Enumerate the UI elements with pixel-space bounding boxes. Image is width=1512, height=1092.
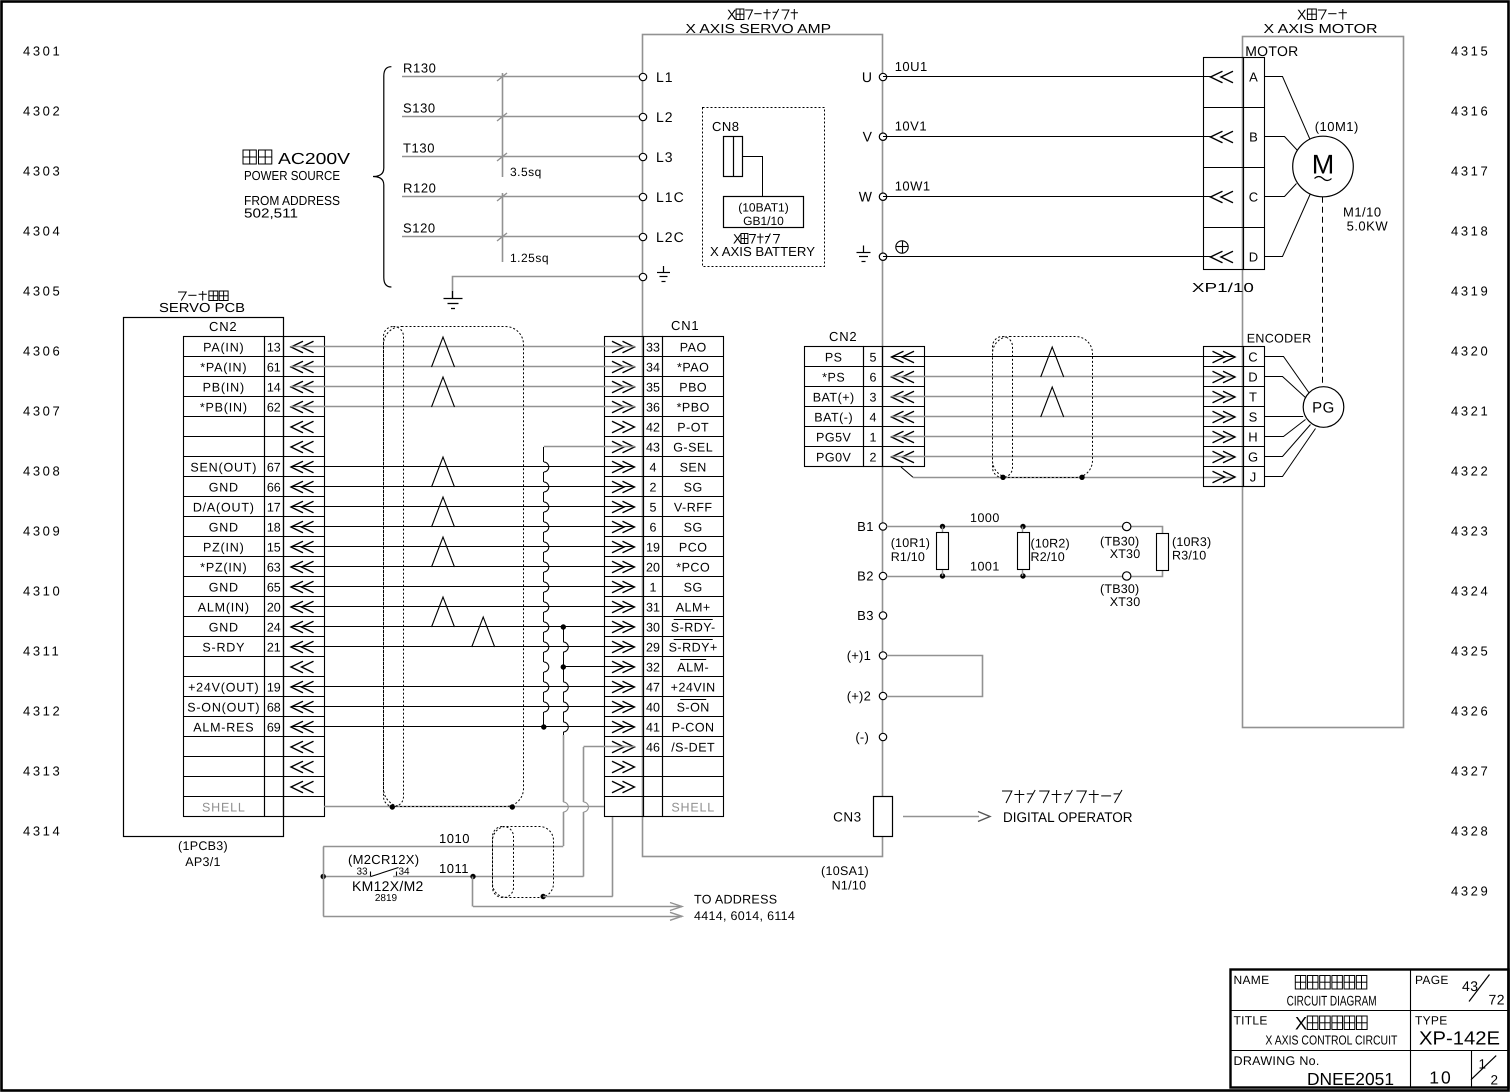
svg-text:PB(IN): PB(IN) [203, 380, 245, 394]
wire motor pin A to motor [1265, 77, 1311, 141]
wire 1001 B2 net [887, 571, 1163, 577]
svg-text:ALM+: ALM+ [676, 600, 711, 614]
wire down-mid to address [472, 877, 474, 907]
terminal (-) [879, 733, 886, 740]
svg-text:4328: 4328 [1451, 824, 1490, 839]
svg-text:DIGITAL OPERATOR: DIGITAL OPERATOR [1003, 809, 1133, 825]
svg-text:15: 15 [267, 540, 281, 554]
svg-text:41: 41 [646, 720, 660, 734]
label X-jiku motor (Japanese) [1297, 8, 1347, 24]
svg-text:21: 21 [267, 640, 281, 654]
svg-text:42: 42 [646, 420, 660, 434]
svg-text:*PBO: *PBO [677, 400, 710, 414]
junction dot 1011 left [321, 874, 326, 879]
terminal L2C [639, 233, 646, 240]
junction dot 1011 mid [470, 874, 475, 879]
shield junction dots left cable [390, 804, 395, 809]
svg-text:33: 33 [646, 340, 660, 354]
svg-text:10: 10 [1429, 1068, 1452, 1088]
svg-text:BAT(+): BAT(+) [813, 390, 855, 404]
wire 1010 [323, 846, 563, 848]
svg-text:4317: 4317 [1451, 164, 1490, 179]
svg-text:(1PCB3): (1PCB3) [178, 839, 228, 853]
wire motor pin B to motor [1265, 137, 1298, 151]
shield junction dot small cable [541, 894, 546, 899]
svg-text:W: W [859, 189, 873, 205]
svg-text:D: D [1249, 250, 1258, 265]
wire earth to motor [883, 256, 1211, 258]
svg-text:67: 67 [267, 460, 281, 474]
svg-text:L2C: L2C [656, 229, 685, 245]
svg-text:34: 34 [398, 867, 410, 878]
svg-text:(10SA1): (10SA1) [821, 864, 869, 878]
svg-text:4310: 4310 [23, 584, 62, 599]
servo PCB outline box [124, 318, 284, 837]
twisted pair marks encoder cable [1041, 347, 1064, 377]
left margin line numbers 4301-4314 [23, 44, 62, 839]
svg-text:4309: 4309 [23, 524, 62, 539]
servo amp CN1 send arrows [612, 341, 635, 353]
svg-text:S-RDY-: S-RDY- [671, 620, 716, 634]
svg-text:SG: SG [684, 580, 703, 594]
svg-text:P-OT: P-OT [677, 420, 709, 434]
svg-text:PG: PG [1312, 400, 1335, 417]
wire ALM- stub [563, 666, 634, 668]
svg-text:66: 66 [267, 480, 281, 494]
svg-text:SERVO PCB: SERVO PCB [159, 300, 245, 315]
wire encoder pin D to PG [1265, 377, 1307, 399]
S-RDY-/ALM- tie drop wire [563, 627, 565, 642]
svg-text:PA(IN): PA(IN) [203, 340, 244, 354]
svg-text:20: 20 [267, 600, 281, 614]
dashed shaft link motor to encoder [1322, 197, 1324, 387]
svg-text:13: 13 [267, 340, 281, 354]
svg-text:TYPE: TYPE [1415, 1014, 1448, 1028]
svg-text:72: 72 [1489, 991, 1506, 1007]
svg-text:DNEE2051: DNEE2051 [1307, 1069, 1394, 1089]
svg-text:GND: GND [209, 580, 239, 594]
svg-text:4306: 4306 [23, 344, 62, 359]
resistor R2/10 [1020, 524, 1025, 529]
svg-text:KM12X/M2: KM12X/M2 [352, 878, 424, 894]
svg-text:SEN: SEN [680, 460, 707, 474]
svg-text:L1: L1 [656, 69, 674, 85]
svg-text:1010: 1010 [439, 831, 470, 846]
wire earth input [453, 277, 643, 299]
svg-text:CN8: CN8 [712, 119, 740, 134]
svg-text:R1/10: R1/10 [891, 550, 925, 564]
svg-text:(10R1): (10R1) [891, 536, 930, 550]
svg-text:2: 2 [870, 450, 877, 464]
svg-text:20: 20 [646, 560, 660, 574]
svg-text:4: 4 [870, 410, 877, 424]
terminal L1C [639, 193, 646, 200]
svg-text:5: 5 [650, 500, 657, 514]
wire encoder pin J to PG [1265, 429, 1316, 477]
svg-text:S-ON(OUT): S-ON(OUT) [187, 700, 260, 714]
svg-text:CN3: CN3 [833, 809, 862, 824]
svg-text:V-RFF: V-RFF [674, 500, 713, 514]
terminal B3 [879, 612, 886, 619]
svg-text:35: 35 [646, 380, 660, 394]
svg-text:S-RDY: S-RDY [202, 640, 245, 654]
motor unit outline box [1243, 37, 1404, 728]
motor M1 circle symbol [1293, 136, 1354, 197]
svg-text:XT30: XT30 [1110, 547, 1141, 561]
servo PCB CN2 receive arrows [291, 341, 314, 353]
svg-text:5: 5 [870, 350, 877, 364]
svg-text:4321: 4321 [1451, 404, 1490, 419]
svg-text:X AXIS MOTOR: X AXIS MOTOR [1264, 21, 1378, 36]
svg-text:4319: 4319 [1451, 284, 1490, 299]
svg-text:PG5V: PG5V [816, 430, 852, 444]
svg-text:4311: 4311 [23, 644, 61, 659]
svg-text:*PB(IN): *PB(IN) [200, 400, 248, 414]
label X-jiku servo amp (Japanese) [727, 8, 798, 24]
wire T130 [402, 156, 643, 158]
CN1 shell drop wire to small cable shield [612, 817, 614, 897]
svg-text:4: 4 [650, 460, 657, 474]
svg-text:X AXIS CONTROL CIRCUIT: X AXIS CONTROL CIRCUIT [1265, 1033, 1397, 1048]
wire S130 [402, 116, 643, 118]
svg-text:R120: R120 [403, 181, 436, 196]
svg-text:65: 65 [267, 580, 281, 594]
svg-text:31: 31 [646, 600, 660, 614]
svg-text:62: 62 [267, 400, 281, 414]
svg-text:63: 63 [267, 560, 281, 574]
svg-text:R3/10: R3/10 [1172, 549, 1206, 563]
svg-text:R2/10: R2/10 [1031, 550, 1065, 564]
svg-text:(-): (-) [855, 730, 869, 745]
svg-text:G: G [1248, 450, 1258, 465]
svg-text:18: 18 [267, 520, 281, 534]
svg-text:(10R3): (10R3) [1172, 535, 1211, 549]
svg-text:NAME: NAME [1234, 973, 1270, 987]
svg-text:PCO: PCO [679, 540, 708, 554]
resistor R3/10 [1157, 534, 1169, 571]
svg-text:10V1: 10V1 [895, 119, 927, 134]
cable shield dashed loop small (1010/1011) [493, 827, 554, 898]
encoder cable dashed shield loop [993, 337, 1093, 478]
CN3 connector box [874, 797, 893, 837]
svg-text:TO ADDRESS: TO ADDRESS [694, 893, 777, 907]
svg-text:10U1: 10U1 [895, 59, 928, 74]
svg-text:*PS: *PS [822, 370, 845, 384]
svg-text:SHELL: SHELL [671, 800, 715, 814]
svg-text:(10M1): (10M1) [1315, 119, 1359, 134]
svg-text:R130: R130 [403, 61, 436, 76]
label servo PCB (Japanese) [178, 291, 228, 301]
svg-text:68: 68 [267, 700, 281, 714]
wire encoder pin C to PG [1265, 357, 1310, 394]
svg-text:S130: S130 [403, 101, 436, 116]
svg-text:6: 6 [650, 520, 657, 534]
svg-text:PZ(IN): PZ(IN) [203, 540, 245, 554]
svg-text:CN2: CN2 [829, 329, 857, 344]
terminal (+)1 [879, 652, 886, 659]
svg-text:4301: 4301 [23, 44, 62, 59]
svg-text:G-SEL: G-SEL [673, 440, 713, 454]
svg-text:X: X [1295, 1014, 1307, 1034]
svg-text:(+)1: (+)1 [847, 648, 871, 663]
battery GB1/10 box [724, 197, 804, 228]
svg-text:2: 2 [650, 480, 657, 494]
/S-DET drop wire [583, 747, 585, 802]
encoder shield stub and wire [901, 467, 913, 477]
title block [1231, 970, 1509, 1088]
wire S120 [402, 236, 643, 238]
svg-text:ALM-: ALM- [677, 660, 709, 674]
svg-text:1000: 1000 [970, 511, 1000, 525]
label power source (kanji) AC200V [243, 150, 272, 164]
svg-text:10W1: 10W1 [895, 179, 931, 194]
CN8 dashed enclosure [703, 108, 825, 267]
svg-text:C: C [1248, 350, 1257, 365]
terminal earth with ground symbol [639, 273, 646, 280]
svg-text:4313: 4313 [23, 764, 62, 779]
svg-text:ENCODER: ENCODER [1247, 332, 1312, 346]
svg-text:L3: L3 [656, 149, 674, 165]
svg-text:4329: 4329 [1451, 884, 1490, 899]
svg-text:H: H [1248, 430, 1257, 445]
svg-text:D: D [1248, 370, 1257, 385]
svg-text:4308: 4308 [23, 464, 62, 479]
svg-text:4323: 4323 [1451, 524, 1490, 539]
signal wires SEN..ALM-RES group [291, 466, 635, 468]
svg-text:2: 2 [1491, 1073, 1499, 1088]
terminal B2 [879, 572, 886, 579]
protective earth circled cross symbol [896, 241, 908, 253]
label X axis battery (Japanese) [733, 232, 779, 247]
arrow CN3 to digital operator [903, 816, 979, 818]
svg-text:4304: 4304 [23, 224, 62, 239]
svg-text:C: C [1249, 190, 1258, 205]
svg-text:4307: 4307 [23, 404, 62, 419]
svg-text:36: 36 [646, 400, 660, 414]
wire 10U1 [883, 76, 1211, 78]
terminal XT30 TB30 upper [1123, 522, 1131, 530]
right margin line numbers 4315-4329 [1451, 44, 1490, 899]
servo amp CN2 encoder table [805, 347, 864, 467]
terminal L3 [639, 153, 646, 160]
svg-text:GB1/10: GB1/10 [743, 214, 784, 228]
svg-text:24: 24 [267, 620, 281, 634]
svg-text:/S-DET: /S-DET [671, 740, 715, 754]
svg-text:CIRCUIT DIAGRAM: CIRCUIT DIAGRAM [1287, 993, 1377, 1009]
wire /S-DET [584, 746, 635, 748]
svg-text:17: 17 [267, 500, 281, 514]
svg-text:+24VIN: +24VIN [671, 680, 716, 694]
svg-text:T: T [1249, 390, 1257, 405]
svg-text:43: 43 [646, 440, 660, 454]
svg-text:*PAO: *PAO [677, 360, 709, 374]
svg-text:34: 34 [646, 360, 660, 374]
svg-text:1.25sq: 1.25sq [510, 251, 549, 265]
servo amp CN2 receive arrows [892, 351, 915, 363]
svg-text:L1C: L1C [656, 189, 685, 205]
svg-text:XP1/10: XP1/10 [1192, 280, 1254, 295]
svg-text:POWER SOURCE: POWER SOURCE [244, 168, 340, 183]
svg-text:S-ON: S-ON [677, 700, 710, 714]
svg-text:29: 29 [646, 640, 660, 654]
svg-text:ALM(IN): ALM(IN) [198, 600, 250, 614]
wire contact to 1011 left segment [323, 876, 371, 878]
drop wire to 1010 net [563, 735, 565, 802]
svg-text:+24V(OUT): +24V(OUT) [188, 680, 259, 694]
encoder cable wires greyed [892, 376, 1236, 378]
terminal U [879, 73, 886, 80]
svg-text:TITLE: TITLE [1234, 1014, 1268, 1028]
svg-text:1001: 1001 [970, 560, 1000, 574]
svg-text:AP3/1: AP3/1 [185, 855, 221, 869]
wire (+)1 to (+)2 link [887, 656, 983, 697]
svg-text:4316: 4316 [1451, 104, 1490, 119]
svg-text:L2: L2 [656, 109, 674, 125]
svg-text:U: U [862, 69, 872, 85]
wire size tap 1.25sq [502, 193, 504, 262]
svg-text:PAGE: PAGE [1415, 973, 1449, 987]
svg-text:4302: 4302 [23, 104, 62, 119]
servo PCB CN2 connector table [184, 337, 265, 817]
wire size tap 3.5sq [502, 73, 504, 177]
svg-text:DRAWING No.: DRAWING No. [1234, 1054, 1320, 1068]
svg-text:4324: 4324 [1451, 584, 1490, 599]
svg-text:4322: 4322 [1451, 464, 1490, 479]
wire motor pin C to motor [1265, 184, 1297, 197]
auxiliary contact KM12X/M2 33-34 [370, 872, 372, 877]
svg-text:69: 69 [267, 720, 281, 734]
svg-text:4314: 4314 [23, 824, 62, 839]
svg-text:*PZ(IN): *PZ(IN) [200, 560, 247, 574]
svg-text:SG: SG [684, 520, 703, 534]
svg-text:S: S [1249, 410, 1258, 425]
svg-text:A: A [1249, 70, 1258, 85]
svg-text:1: 1 [870, 430, 877, 444]
svg-text:1: 1 [650, 580, 657, 594]
svg-text:SHELL: SHELL [202, 800, 246, 814]
svg-text:4327: 4327 [1451, 764, 1490, 779]
svg-text:B2: B2 [857, 569, 874, 584]
ground symbol input [452, 291, 454, 298]
resistor R1/10 [940, 524, 945, 529]
svg-text:4305: 4305 [23, 284, 62, 299]
svg-text:4325: 4325 [1451, 644, 1490, 659]
svg-text:1011: 1011 [439, 861, 469, 876]
wire encoder pin S to PG [1264, 416, 1303, 418]
svg-text:B3: B3 [857, 608, 874, 623]
wire down-left to address [323, 847, 325, 917]
G-SEL drop wire with crossovers [543, 447, 545, 462]
encoder PG circle symbol [1303, 387, 1344, 428]
svg-text:19: 19 [267, 680, 281, 694]
svg-text:40: 40 [646, 700, 660, 714]
svg-text:(10R2): (10R2) [1031, 537, 1070, 551]
svg-text:SEN(OUT): SEN(OUT) [190, 460, 257, 474]
svg-text:2819: 2819 [375, 893, 398, 904]
svg-text:BAT(-): BAT(-) [814, 410, 853, 424]
svg-text:502,511: 502,511 [244, 206, 298, 221]
svg-text:4320: 4320 [1451, 344, 1490, 359]
svg-text:B1: B1 [857, 519, 874, 534]
svg-text:4312: 4312 [23, 704, 62, 719]
twisted pair marks left cable [432, 337, 455, 367]
wire G-SEL [544, 446, 635, 448]
wire shell shield left [324, 806, 604, 808]
terminal B1 [879, 523, 886, 530]
encoder connector table [1204, 347, 1244, 487]
terminal W [879, 193, 886, 200]
svg-text:S120: S120 [403, 221, 436, 236]
svg-text:47: 47 [646, 680, 660, 694]
svg-text:J: J [1250, 470, 1257, 485]
motor connector XP1/10 table [1204, 58, 1244, 270]
svg-text:MOTOR: MOTOR [1245, 43, 1298, 59]
wire 1000 B1 net [887, 527, 1163, 534]
svg-text:*PA(IN): *PA(IN) [200, 360, 247, 374]
terminal earth output with ground symbol [879, 253, 886, 260]
signal wires PA/PB group (grey) [291, 346, 635, 348]
svg-text:3: 3 [870, 390, 877, 404]
svg-text:33: 33 [356, 867, 368, 878]
svg-text:46: 46 [646, 740, 660, 754]
wire 10V1 [883, 136, 1211, 138]
wire R120 [402, 196, 643, 198]
svg-text:32: 32 [646, 660, 660, 674]
label digital operator (Japanese) [1002, 790, 1122, 803]
svg-text:V: V [863, 129, 873, 145]
svg-text:30: 30 [646, 620, 660, 634]
terminal L1 [639, 73, 646, 80]
svg-text:4414, 6014, 6114: 4414, 6014, 6114 [694, 909, 795, 923]
encoder shield junction dots [1000, 475, 1005, 480]
svg-text:B: B [1249, 130, 1258, 145]
terminal (+)2 [879, 692, 886, 699]
power source brace [373, 67, 391, 287]
svg-text:19: 19 [646, 540, 660, 554]
servo amp CN1 connector table [605, 337, 644, 817]
wire 1011 [473, 876, 584, 878]
svg-text:PG0V: PG0V [816, 450, 852, 464]
wire motor pin D to motor [1265, 194, 1311, 257]
terminal L2 [639, 113, 646, 120]
svg-text:N1/10: N1/10 [832, 879, 867, 893]
svg-text:4303: 4303 [23, 164, 62, 179]
servo amp U1 outline box [643, 35, 883, 857]
cable shield dashed loop left [384, 327, 524, 807]
svg-text:(M2CR12X): (M2CR12X) [348, 852, 419, 867]
svg-text:P-CON: P-CON [672, 720, 715, 734]
svg-text:PS: PS [825, 350, 843, 364]
svg-text:M: M [1312, 150, 1335, 180]
svg-text:3.5sq: 3.5sq [510, 165, 542, 179]
svg-text:PAO: PAO [680, 340, 707, 354]
svg-text:5.0KW: 5.0KW [1347, 218, 1389, 233]
svg-text:6: 6 [870, 370, 877, 384]
svg-text:SG: SG [684, 480, 703, 494]
svg-text:*PCO: *PCO [676, 560, 710, 574]
svg-text:T130: T130 [403, 141, 435, 156]
svg-text:4318: 4318 [1451, 224, 1490, 239]
svg-text:X AXIS BATTERY: X AXIS BATTERY [710, 244, 815, 259]
terminal XT30 TB30 lower [1123, 572, 1131, 580]
svg-text:4326: 4326 [1451, 704, 1490, 719]
wire CN8 to battery [743, 157, 763, 197]
svg-text:M1/10: M1/10 [1343, 205, 1382, 220]
encoder cable wire PS [892, 356, 1236, 358]
CN8 connector symbol [724, 137, 743, 177]
wire encoder pin H to PG [1265, 420, 1306, 437]
wire 10W1 [883, 196, 1211, 198]
